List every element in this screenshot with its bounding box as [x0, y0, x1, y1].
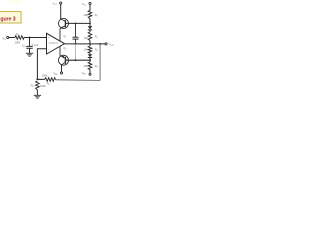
wire feedback horizontal [56, 79, 101, 82]
wire Q2 base to bias column [65, 59, 90, 61]
node junction base Q1 / column [89, 22, 91, 24]
svg-text:28k: 28k [84, 13, 89, 17]
resistor R_F 100k [42, 74, 56, 86]
wire R1 to node1 [89, 19, 91, 26]
node junction Q2 base branch [75, 59, 77, 61]
wire feedback vertical from rail [99, 44, 101, 81]
wire Rin to op-amp +input [24, 37, 47, 39]
resistor R1 28k [84, 11, 98, 19]
transistor Q1 (NPN) [59, 18, 69, 38]
wire R4 to Vee terminal [89, 70, 91, 74]
capacitor C1 [73, 37, 79, 39]
node junction inverting/feedback [36, 78, 38, 80]
node Vout terminal [105, 42, 115, 47]
resistor R3 [84, 46, 98, 53]
capacitor C_IN 0.1uF [22, 43, 39, 48]
wire junction down to C1 [75, 23, 77, 37]
wire D1 to R2 [89, 30, 91, 32]
resistor R_G 100k [31, 81, 47, 90]
wire Q1 base to bias column [65, 22, 90, 24]
wire D2 to node3 [89, 58, 91, 63]
wire output rail to Vout [65, 43, 105, 45]
wire Q1 collector to Vcc terminal [60, 4, 62, 19]
node input junction [29, 37, 31, 39]
wire rail down to Q2 base (faint) [74, 44, 76, 60]
wire R_F to inverting node [37, 78, 44, 80]
figure label box "Figure 3" [0, 12, 21, 24]
node junction rail/feedback [99, 43, 101, 45]
wire op-amp V- supply pin to Q2 emitter [59, 46, 61, 55]
wire C1 to output rail [75, 39, 77, 44]
svg-text:Figure 3: Figure 3 [0, 16, 16, 22]
node Vin terminal [2, 36, 9, 41]
svg-text:0.1µF: 0.1µF [32, 43, 39, 47]
svg-text:AD8021: AD8021 [49, 41, 59, 45]
ground (input cap) [26, 53, 33, 56]
svg-text:10k: 10k [84, 47, 89, 51]
svg-text:28k: 28k [84, 64, 89, 68]
node Vee terminal (Q2) [53, 71, 62, 76]
node junction base Q2 / column [89, 59, 91, 61]
diode D1 [88, 26, 92, 30]
wire rail to R3 [89, 44, 91, 46]
wire junction down to C_IN [29, 38, 31, 47]
node Vee terminal (bias column) [82, 71, 91, 76]
node Vcc terminal (Q1) [53, 2, 62, 7]
svg-text:100k: 100k [15, 41, 21, 45]
ground (R_G) [34, 95, 41, 98]
node Vcc terminal (bias column) [82, 2, 91, 7]
svg-text:−: − [48, 47, 50, 51]
node junction C1/rail [75, 43, 77, 45]
wire inverting node up to op-amp [37, 49, 46, 80]
op-amp U1 AD8021 [47, 33, 65, 54]
wire R2 to rail [89, 41, 91, 44]
wire C_IN to ground [29, 48, 31, 53]
resistor R4 28k [84, 62, 98, 70]
resistor R2 [84, 32, 98, 41]
wire R3 to D2 [89, 53, 91, 54]
wire op-amp V+ supply pin to Q1 emitter [59, 29, 61, 41]
wire Vin to Rin [9, 37, 15, 39]
node junction column/rail [89, 43, 91, 45]
node junction Q1 base / cap branch [75, 22, 77, 24]
wire Q2 collector to Vee terminal [61, 65, 63, 72]
svg-text:100k: 100k [42, 74, 48, 78]
diode D2 [88, 54, 92, 57]
resistor R_IN 100k [15, 32, 25, 44]
transistor Q2 (PNP) [59, 46, 69, 65]
wire R_G to ground [36, 90, 38, 95]
wire Vcc to R1 [89, 5, 91, 11]
svg-text:100k: 100k [40, 84, 46, 88]
svg-text:10k: 10k [84, 36, 89, 40]
